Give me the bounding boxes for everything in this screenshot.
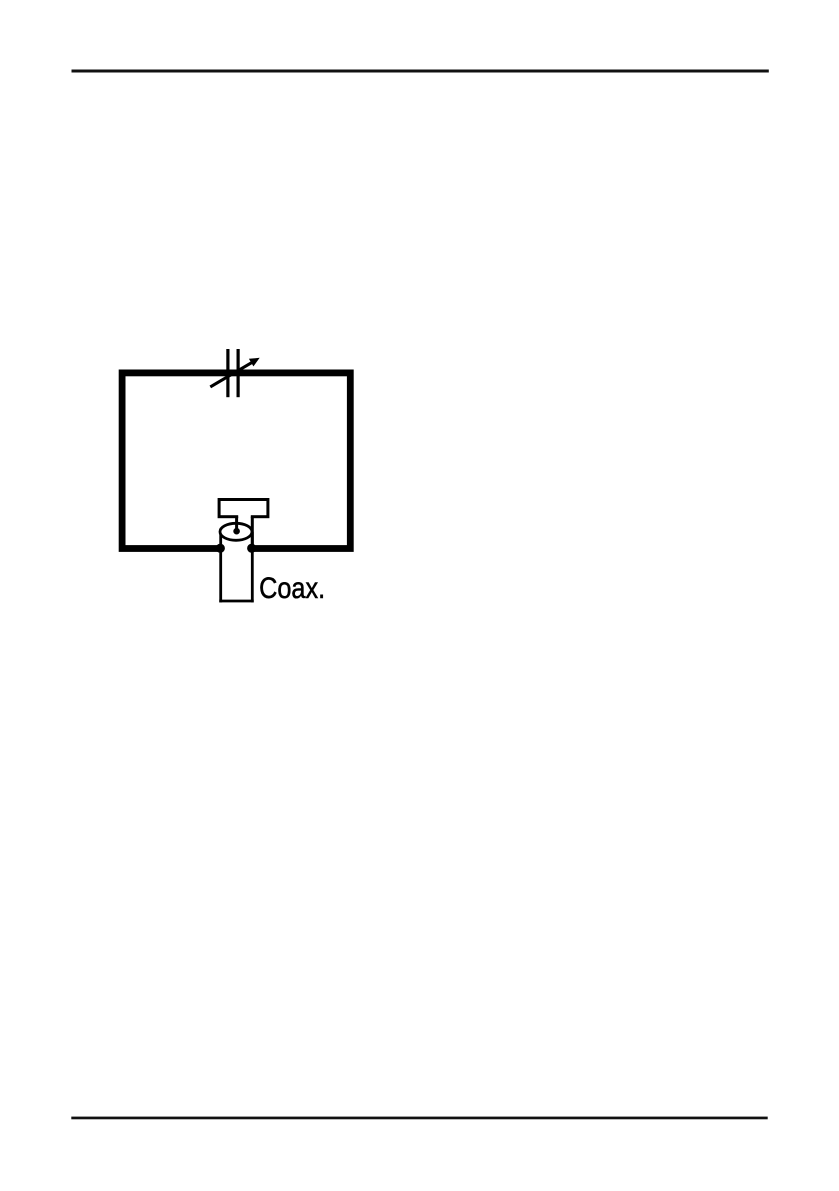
coax connector bottom end xyxy=(219,600,253,603)
bottom horizontal rule xyxy=(71,1117,767,1120)
coax connector top face (ellipse) xyxy=(220,523,252,540)
T-bar coupling element outline xyxy=(219,500,268,517)
coax connector right wall xyxy=(251,532,254,603)
T-bar stem right side xyxy=(251,517,254,548)
variable capacitor C1 plate 2 xyxy=(237,349,240,397)
coax connector body (white mask over loop wire) xyxy=(219,532,253,603)
T-bar stem gap (white) xyxy=(238,514,251,521)
variable capacitor C1 adjustment arrow xyxy=(210,362,252,387)
variable capacitor C1 plate 1 xyxy=(226,349,229,397)
top horizontal rule xyxy=(72,70,769,73)
svg-text:Coax.: Coax. xyxy=(259,573,325,605)
junction dot right (loop to coax center) xyxy=(247,544,256,553)
junction dot left (loop to coax shield) xyxy=(216,544,225,553)
center pin dot xyxy=(233,528,240,535)
coax connector left wall xyxy=(219,532,222,603)
loop conductor L1 (rectangular loop wire) xyxy=(122,373,350,549)
T-bar stem left side / center pin lead xyxy=(235,517,238,530)
